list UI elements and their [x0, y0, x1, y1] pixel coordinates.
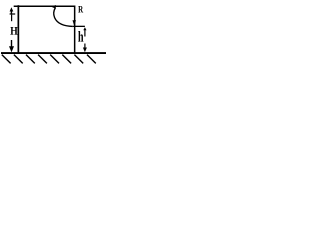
ground: [1, 52, 106, 54]
label h: [78, 31, 83, 42]
h dimension line: [83, 27, 86, 30]
hatch 5: [50, 55, 59, 64]
shelf tick (top reference of h): [73, 26, 85, 27]
hatch 2: [14, 55, 23, 64]
h dimension lower arrowhead: [83, 48, 87, 53]
pole (left vertical support): [18, 5, 20, 53]
hatch 8: [87, 55, 96, 64]
hatch 4: [38, 55, 47, 64]
H dimension crossbar: [10, 13, 16, 14]
hatch 6: [62, 55, 71, 64]
R radius down arrowhead: [73, 20, 77, 26]
H dimension upper arrow: [10, 7, 14, 11]
hatch 7: [74, 55, 83, 64]
R radius vertical line / wall: [74, 6, 76, 54]
hatch 3: [26, 55, 35, 64]
label R: [78, 6, 83, 12]
R radius left arrowhead: [51, 5, 56, 9]
H dimension upper stem: [11, 15, 13, 22]
label H: [10, 27, 17, 35]
H dimension lower arrowhead: [9, 46, 14, 52]
hatch 1: [2, 55, 11, 64]
top platform line: [14, 6, 75, 8]
quarter-pipe arc: [54, 8, 73, 26]
H dimension lower stem: [11, 40, 13, 47]
